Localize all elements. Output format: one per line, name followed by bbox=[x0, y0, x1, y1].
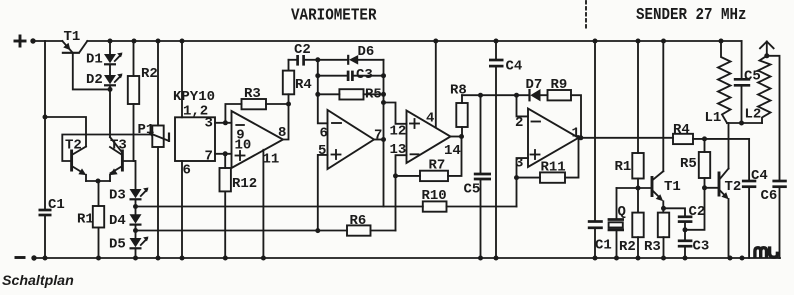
wire: + supply rail bbox=[33, 40, 742, 42]
resistor R6 in wire from D4 node bbox=[136, 213, 396, 236]
svg-text:SENDER 27 MHz: SENDER 27 MHz bbox=[636, 6, 747, 24]
svg-text:7: 7 bbox=[374, 128, 382, 144]
svg-text:12: 12 bbox=[390, 124, 407, 140]
inductor L2 bbox=[745, 56, 771, 123]
node: dot at (317.8,230.6) bbox=[315, 228, 320, 233]
svg-text:R2: R2 bbox=[619, 239, 636, 255]
svg-text:L2: L2 bbox=[745, 107, 762, 123]
resistor R7 bbox=[396, 137, 462, 182]
capacitor C1 sender bbox=[588, 41, 612, 258]
diode D7 bbox=[526, 77, 543, 101]
junction dots on + rail bbox=[108, 39, 724, 44]
svg-text:P1: P1 bbox=[138, 122, 155, 138]
svg-text:R7: R7 bbox=[429, 158, 446, 174]
capacitor C5 bbox=[464, 95, 492, 258]
diode D1 bbox=[86, 52, 123, 68]
capacitor C1 bbox=[39, 197, 65, 215]
capacitor C5 sender bbox=[734, 41, 761, 123]
node: dot at (383.5,102.5) bbox=[381, 100, 386, 105]
svg-text:R5: R5 bbox=[365, 87, 382, 103]
transistor T3 bbox=[110, 137, 135, 181]
wire: U1d pin 2 bbox=[517, 95, 529, 116]
node: dot at (317.8,59.8) bbox=[315, 57, 320, 62]
wire: U1c pin 4 to + rail bbox=[435, 41, 437, 128]
svg-text:C6: C6 bbox=[761, 188, 778, 204]
svg-text:C1: C1 bbox=[595, 238, 612, 254]
svg-text:R5: R5 bbox=[680, 156, 697, 172]
svg-text:C2: C2 bbox=[689, 204, 706, 220]
capacitor C3 sender bbox=[678, 230, 710, 258]
capacitor C4 bbox=[489, 41, 522, 258]
svg-text:C5: C5 bbox=[464, 182, 481, 198]
node: dot at (288.5,104) bbox=[286, 102, 291, 107]
svg-text:D2: D2 bbox=[86, 72, 103, 88]
svg-text:Schaltplan: Schaltplan bbox=[2, 273, 74, 289]
dashed separator line bbox=[585, 1, 587, 31]
svg-text:D7: D7 bbox=[526, 77, 543, 93]
svg-text:R6: R6 bbox=[350, 213, 367, 229]
wire: C2 sender to T2 base bbox=[685, 188, 719, 230]
resistor R4 bbox=[283, 60, 312, 104]
node: plus terminal dot bbox=[30, 38, 35, 43]
svg-text:C3: C3 bbox=[693, 239, 710, 255]
op-amp U1d pins 2,3,1 bbox=[515, 109, 580, 172]
potentiometer P1 bbox=[138, 41, 170, 258]
svg-text:R4: R4 bbox=[295, 77, 312, 93]
op-amp U1c pins 12,13,14,4 bbox=[390, 111, 461, 164]
wire: sender T1 emitter bbox=[662, 201, 664, 212]
logo ML bbox=[755, 246, 778, 258]
plus terminal bbox=[14, 35, 27, 48]
wire: tank circuit node bbox=[727, 122, 762, 124]
wire: U1b pin 5 bbox=[318, 155, 328, 231]
wire: sender T1 base net bbox=[617, 187, 653, 189]
svg-text:5: 5 bbox=[318, 143, 326, 159]
node: dot at (766.8,55.8) bbox=[764, 53, 769, 58]
svg-text:VARIOMETER: VARIOMETER bbox=[291, 6, 377, 24]
capacitor C4 sender bbox=[742, 139, 768, 258]
svg-text:7: 7 bbox=[205, 149, 213, 165]
svg-text:C2: C2 bbox=[294, 42, 311, 58]
wire: sender T1 collector to rail bbox=[662, 41, 664, 171]
node: dot at (580.8,137.8) bbox=[578, 135, 583, 140]
op-amp U1a pins 9,10,8,11 bbox=[232, 111, 287, 168]
wire: U1c pin 13 bus bbox=[396, 155, 407, 230]
svg-text:D4: D4 bbox=[109, 213, 126, 229]
resistor R2 bbox=[128, 41, 158, 161]
wire: - supply rail (ground) bbox=[34, 257, 780, 259]
svg-text:Q: Q bbox=[618, 204, 626, 220]
capacitor C3 bbox=[318, 67, 384, 83]
wire: D1 D2 chain from + rail down to T3 collector bbox=[109, 41, 111, 137]
node: dot at (135.5,206.5) bbox=[133, 204, 138, 209]
svg-text:L1: L1 bbox=[705, 110, 722, 126]
node: dot at (685,229.8) bbox=[683, 227, 688, 232]
wire: feedback bus branch to U1c pin 12 bbox=[384, 103, 407, 124]
svg-text:T3: T3 bbox=[110, 138, 127, 154]
resistor R1 bbox=[77, 181, 104, 258]
svg-text:T2: T2 bbox=[725, 179, 742, 195]
svg-text:11: 11 bbox=[263, 152, 280, 168]
svg-text:14: 14 bbox=[444, 143, 461, 159]
svg-text:6: 6 bbox=[320, 126, 328, 142]
resistor R11 bbox=[517, 138, 579, 183]
node: dot at (480.5,95.2) bbox=[478, 93, 483, 98]
resistor R5 bbox=[318, 87, 384, 103]
resistor R8 bbox=[450, 83, 468, 137]
node: dot at (383.5,139.5) bbox=[381, 137, 386, 142]
transistor T1 bbox=[62, 29, 88, 53]
svg-text:R3: R3 bbox=[244, 86, 261, 102]
svg-text:C4: C4 bbox=[506, 59, 523, 75]
crystal Q bbox=[608, 188, 626, 258]
resistor R3 sender bbox=[644, 213, 669, 258]
minus terminal bbox=[15, 256, 26, 259]
wire: T1 base to diode chain bbox=[73, 54, 110, 90]
svg-text:3: 3 bbox=[205, 116, 213, 132]
resistor R5 sender bbox=[680, 139, 710, 188]
wire: emitter common node bbox=[86, 180, 110, 182]
wire: P1 wiper to T2 base bbox=[62, 135, 149, 162]
title VARIOMETER bbox=[291, 6, 377, 24]
svg-text:R3: R3 bbox=[644, 239, 661, 255]
wire: KPY10 pin 6 to ground bbox=[181, 161, 183, 258]
svg-text:D3: D3 bbox=[109, 188, 126, 204]
resistor R12 bbox=[220, 154, 258, 258]
svg-text:D1: D1 bbox=[86, 52, 103, 68]
svg-text:D5: D5 bbox=[109, 237, 126, 253]
svg-text:C4: C4 bbox=[751, 168, 768, 184]
svg-text:6: 6 bbox=[183, 163, 191, 179]
diode D6 bbox=[318, 44, 384, 65]
node: dot at (704.5,187.8) bbox=[702, 185, 707, 190]
resistor R10 in long wire from D3 node to U1d pin3 bus bbox=[136, 188, 517, 212]
capacitor C2 sender bbox=[664, 204, 706, 230]
svg-text:R4: R4 bbox=[673, 122, 690, 138]
svg-text:D6: D6 bbox=[358, 44, 375, 60]
svg-text:R10: R10 bbox=[422, 188, 447, 204]
svg-text:R2: R2 bbox=[141, 66, 158, 82]
node: minus terminal dot bbox=[31, 255, 36, 260]
wire: U1b output pin 7 bbox=[374, 139, 384, 141]
node: dot at (516.5,95.2) bbox=[514, 93, 519, 98]
svg-text:T2: T2 bbox=[65, 138, 82, 154]
node: dot at (225.2,153.8) bbox=[223, 151, 228, 156]
svg-text:4: 4 bbox=[426, 111, 434, 127]
resistor R4 sender bbox=[673, 122, 749, 144]
node: dot at (461.5,136.5) bbox=[459, 134, 464, 139]
svg-text:T1: T1 bbox=[64, 29, 81, 45]
node: dot at (516.5,177.6) bbox=[514, 175, 519, 180]
node: dot at (383.5,75.7) bbox=[381, 73, 386, 78]
svg-text:C3: C3 bbox=[356, 67, 373, 83]
caption Schaltplan bbox=[2, 273, 74, 289]
node: dot at (98,181) bbox=[96, 179, 101, 184]
inductor L1 bbox=[705, 41, 731, 126]
resistor R3 bbox=[225, 86, 288, 123]
wire: KPY10 pin 3 to op-amp bbox=[215, 122, 232, 124]
wire: U1b inverting input bus bbox=[318, 60, 328, 124]
svg-text:R1: R1 bbox=[77, 212, 94, 228]
node: dot at (741.5,123) bbox=[739, 121, 744, 126]
node: dot at (383.5,94.3) bbox=[381, 92, 386, 97]
wire: antenna coupling to C6 bbox=[767, 56, 780, 180]
node: dot at (317.8,94.3) bbox=[315, 92, 320, 97]
wire: U1c output pin 14 bbox=[451, 136, 462, 138]
wire: sender T2 emitter to ground bbox=[728, 199, 730, 258]
wire: U1a pin 11 to ground bbox=[262, 150, 264, 258]
wire: + rail left drop to C1 bbox=[44, 41, 46, 258]
node: dot at (135.5,230.5) bbox=[133, 228, 138, 233]
resistor R1 sender bbox=[615, 41, 644, 188]
wire: sender T2 collector to tank bbox=[728, 123, 730, 169]
title SENDER 27 MHz bbox=[636, 6, 747, 24]
diode D4 bbox=[109, 213, 142, 229]
node: dot at (317.8,75.7) bbox=[315, 73, 320, 78]
wire: U1b feedback bus bbox=[383, 60, 385, 207]
capacitor C6 bbox=[761, 181, 787, 258]
node: dot at (45,117) bbox=[43, 115, 48, 120]
svg-text:2: 2 bbox=[515, 115, 523, 131]
wire: KPY10 pin 7 to op-amp bbox=[215, 153, 232, 155]
node: dot at (704.5,138.9) bbox=[702, 136, 707, 141]
diode D2 bbox=[86, 72, 123, 88]
svg-text:R1: R1 bbox=[615, 159, 632, 175]
diode D3 bbox=[109, 161, 149, 204]
wire: U1a output pin 8 bbox=[283, 104, 289, 140]
node: dot at (225.4,122.8) bbox=[223, 120, 228, 125]
svg-text:10: 10 bbox=[235, 138, 252, 154]
wire: U1d output pin 1 to sender R4 bbox=[579, 137, 674, 139]
svg-text:R9: R9 bbox=[551, 77, 568, 93]
wire: U1d pin 3 bus bbox=[517, 158, 529, 206]
wire: D3 cathode to D4 bbox=[135, 199, 137, 214]
node: dot at (638,188) bbox=[636, 186, 641, 191]
svg-text:R12: R12 bbox=[232, 176, 257, 192]
resistor R2 sender bbox=[619, 188, 644, 258]
wire: D4 cathode to D5 bbox=[135, 225, 137, 238]
svg-text:C1: C1 bbox=[48, 197, 65, 213]
junction dots on - rail bbox=[43, 256, 745, 261]
svg-text:R11: R11 bbox=[541, 160, 566, 176]
resistor R9 bbox=[548, 77, 582, 138]
transistor T1 sender bbox=[652, 171, 681, 201]
antenna bbox=[760, 42, 774, 56]
node: dot at (395.5,175.9) bbox=[393, 173, 398, 178]
capacitor C2 bbox=[289, 42, 318, 66]
op-amp U1b pins 5,6,7 bbox=[318, 110, 382, 169]
wire: node (45,117) to T2 collector bbox=[45, 117, 86, 147]
node: dot at (663.5,208.3) bbox=[661, 206, 666, 211]
svg-text:T1: T1 bbox=[664, 179, 681, 195]
wire: KPY10 supply pin 1,2 bbox=[181, 41, 183, 117]
diode D5 bbox=[109, 237, 149, 259]
sensor KPY10 box bbox=[173, 89, 215, 179]
node: dot at (110,89.4) bbox=[108, 87, 113, 92]
transistor T2 sender bbox=[719, 169, 741, 200]
transistor T2 bbox=[65, 138, 86, 182]
wire: comparator input net bbox=[462, 94, 548, 96]
